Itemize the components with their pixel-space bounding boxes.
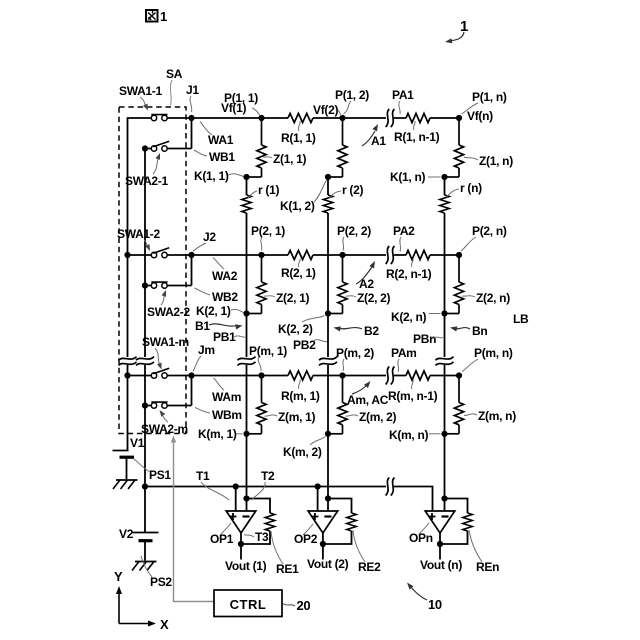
label WB2: [195, 288, 239, 304]
label K(2, 2): [278, 316, 325, 337]
wire ground rail: [145, 487, 433, 512]
node output of OPn: [437, 541, 443, 547]
wire jog to K(1,n): [445, 176, 460, 178]
break in column n sense line: [436, 357, 454, 366]
node output of OP2: [320, 541, 326, 547]
wire feedback loop of OP2: [323, 499, 352, 545]
label A2: [356, 261, 375, 291]
svg-text:Z(1, n): Z(1, n): [479, 154, 513, 168]
label P(1, 1): [224, 91, 258, 105]
svg-text:PB1: PB1: [213, 330, 236, 344]
label P(m, n): [462, 346, 513, 372]
node rail junction for OP2: [315, 483, 321, 489]
wire column 2 sense line: [327, 177, 329, 511]
svg-text:P(1, 2): P(1, 2): [335, 88, 369, 102]
wire jog to K(2,2): [328, 313, 343, 315]
wire jog to K(1,1): [247, 176, 262, 178]
node K(m,2): [325, 431, 331, 437]
svg-text:Z(m, 2): Z(m, 2): [359, 410, 397, 424]
svg-text:T2: T2: [261, 469, 275, 483]
label PA1: [392, 88, 414, 114]
svg-text:WB2: WB2: [212, 290, 238, 304]
label REn: [469, 530, 499, 574]
svg-text:P(2, n): P(2, n): [472, 224, 507, 238]
resistor Z(m,2): [338, 376, 347, 434]
wire WB1 stub to J1: [191, 118, 193, 149]
label V2: [119, 527, 134, 541]
node K(2,1): [243, 310, 249, 316]
label PBn: [413, 332, 443, 346]
node K(m,n): [441, 431, 447, 437]
svg-text:R(1, n-1): R(1, n-1): [394, 130, 440, 144]
label P(2, n): [461, 224, 507, 251]
svg-text:K(m, 1): K(m, 1): [198, 427, 237, 441]
label P(2, 2): [337, 224, 371, 251]
svg-text:PS1: PS1: [149, 468, 171, 482]
svg-text:20: 20: [297, 598, 311, 613]
label K(2, n): [391, 310, 441, 324]
wire + input stub of OP2: [317, 487, 319, 512]
wire output of OP1: [240, 533, 242, 560]
label P(2, 1): [251, 224, 285, 251]
svg-text:T1: T1: [196, 469, 210, 483]
label PB2: [293, 338, 327, 352]
wire row 1 (word line): [192, 117, 460, 119]
label R(2, n-1): [386, 259, 432, 282]
svg-text:Vf(1): Vf(1): [221, 101, 246, 115]
node rail-bus2 junction: [142, 483, 148, 489]
node K(2,n): [441, 310, 447, 316]
node bus1-rowm junction: [124, 372, 130, 378]
svg-text:R(2, n-1): R(2, n-1): [386, 267, 432, 281]
op-amp OP1: [226, 511, 256, 533]
label K(1, 1): [194, 169, 244, 183]
label R(2, 1): [281, 259, 316, 281]
resistor Z(2,1): [257, 255, 266, 314]
svg-text:WB1: WB1: [209, 150, 235, 164]
label V1: [130, 436, 145, 450]
node P(1,n): [456, 115, 462, 121]
svg-text:P(m, 2): P(m, 2): [336, 346, 374, 360]
switch SWA1-1 (closed): [151, 115, 191, 121]
svg-text:X: X: [160, 617, 169, 632]
wire feedback loop of OP1: [241, 499, 270, 545]
svg-text:R(1, 1): R(1, 1): [281, 131, 316, 145]
label A1: [362, 124, 386, 148]
figure title 図1: [146, 9, 167, 24]
wire jog to K(m,2): [328, 433, 343, 435]
ground for V2: [132, 562, 157, 571]
op-amp OPn: [425, 511, 455, 533]
label P(1, n): [462, 90, 507, 114]
svg-text:K(m, n): K(m, n): [389, 428, 429, 442]
ground for V1: [113, 480, 138, 489]
label T3: [244, 530, 269, 544]
label SWA1-m: [142, 335, 189, 370]
svg-text:Z(m, 1): Z(m, 1): [278, 410, 316, 424]
wire feedback loop of OPn: [440, 499, 468, 545]
label Vf(n): [467, 109, 493, 123]
svg-text:K(2, n): K(2, n): [391, 310, 427, 324]
svg-text:r (2): r (2): [342, 183, 363, 197]
label J2: [193, 230, 216, 252]
resistor Z(m,n): [454, 376, 463, 434]
reference numeral 1 with arrow: [445, 18, 468, 43]
svg-text:WAm: WAm: [212, 390, 241, 404]
label Z(1, n): [464, 154, 513, 168]
wire + input stub of OP1: [235, 487, 237, 512]
resistor R(1,1): [288, 113, 313, 123]
break in bus 1: [119, 357, 137, 366]
node P(2,2): [339, 252, 345, 258]
svg-text:P(2, 2): P(2, 2): [337, 224, 371, 238]
label WAm: [212, 378, 241, 404]
svg-text:Vout (n): Vout (n): [420, 558, 462, 572]
label B2: [334, 324, 380, 338]
node K(2,2): [325, 310, 331, 316]
label R(1, n-1): [394, 121, 440, 144]
svg-text:Z(2, 2): Z(2, 2): [357, 291, 391, 305]
svg-text:RE1: RE1: [276, 562, 299, 576]
label SWA1-2: [117, 227, 161, 251]
node P(m,n): [456, 372, 462, 378]
svg-text:Z(1, 1): Z(1, 1): [273, 152, 307, 166]
svg-text:PA1: PA1: [392, 88, 414, 102]
svg-text:OPn: OPn: [409, 531, 433, 545]
wire WB2 stub to J2: [191, 255, 193, 286]
node feedback junction of OP2: [325, 495, 331, 501]
node P(2,n): [456, 252, 462, 258]
label SWA2-2: [147, 290, 191, 319]
label T1: [196, 469, 229, 500]
label Z(2, 1): [264, 291, 310, 305]
svg-text:Bn: Bn: [472, 324, 487, 338]
svg-text:P(1, n): P(1, n): [472, 90, 507, 104]
label K(2, 1): [196, 304, 244, 318]
label K(m, 2): [283, 437, 326, 460]
node feedback junction of OP1: [243, 495, 249, 501]
label WA2: [212, 258, 238, 284]
resistor Z(2,n): [454, 255, 463, 314]
label RE2: [353, 530, 381, 574]
resistor R(2,1): [288, 250, 313, 260]
node P(1,2): [339, 115, 345, 121]
label SWA2-m: [141, 410, 188, 436]
svg-text:SWA2-m: SWA2-m: [141, 422, 188, 436]
battery V2 (PS2): [133, 487, 159, 561]
label PS2: [141, 556, 172, 589]
label SA: [166, 67, 183, 105]
label Z(2, 2): [346, 291, 391, 305]
svg-text:A1: A1: [371, 134, 386, 148]
label PS1: [134, 459, 171, 482]
svg-text:Z(2, n): Z(2, n): [476, 291, 510, 305]
control line from CTRL to SA: [171, 436, 214, 602]
svg-text:Am, AC: Am, AC: [347, 393, 389, 407]
resistor r(2): [322, 195, 334, 213]
svg-text:J1: J1: [186, 83, 199, 97]
resistor R(2,n-1): [406, 250, 430, 260]
svg-text:B1: B1: [195, 319, 210, 333]
break in column 2 sense line: [319, 357, 337, 366]
svg-text:SWA2-1: SWA2-1: [125, 174, 169, 188]
svg-text:Z(m, n): Z(m, n): [478, 409, 516, 423]
label Z(1, 1): [264, 152, 307, 166]
wire output of OPn: [439, 533, 441, 560]
wire jog to K(1,2): [328, 176, 343, 178]
label Z(m, n): [464, 409, 516, 423]
label K(1, 2): [280, 180, 327, 213]
svg-text:PA2: PA2: [393, 224, 415, 238]
label LB: [513, 312, 529, 326]
node K(1,1): [243, 174, 249, 180]
label K(1, n): [390, 170, 441, 184]
svg-text:PAm: PAm: [391, 346, 417, 360]
svg-text:K(m, 2): K(m, 2): [283, 445, 322, 459]
label SWA1-1: [119, 84, 163, 111]
node rail junction for OP1: [233, 483, 239, 489]
wire jog to K(2,1): [247, 313, 262, 315]
wire bus V1 (left vertical bus 1): [128, 118, 152, 450]
svg-text:PS2: PS2: [150, 575, 172, 589]
svg-text:R(m, 1): R(m, 1): [281, 389, 320, 403]
switch SWA2-m (closed): [142, 402, 192, 409]
resistor RE of OP2: [347, 513, 356, 531]
svg-text:B2: B2: [364, 324, 379, 338]
label SWA2-1: [125, 153, 169, 188]
svg-text:K(2, 2): K(2, 2): [278, 322, 313, 336]
svg-text:Jm: Jm: [198, 343, 215, 357]
wire row m (word line): [192, 375, 460, 377]
node feedback junction of OPn: [441, 495, 447, 501]
label Vout(n): [420, 558, 462, 572]
battery V1 (PS1): [113, 451, 135, 480]
svg-text:10: 10: [428, 597, 442, 612]
svg-text:K(1, 1): K(1, 1): [194, 169, 229, 183]
switch SWA1-m (open): [128, 368, 192, 378]
label PAm: [391, 346, 417, 372]
svg-text:R(2, 1): R(2, 1): [281, 266, 316, 280]
svg-text:SWA2-2: SWA2-2: [147, 305, 191, 319]
label Z(2, n): [462, 291, 510, 305]
label RE1: [271, 531, 299, 576]
svg-text:V2: V2: [119, 527, 134, 541]
reference numeral 10 with arrow: [407, 583, 442, 613]
resistor Z(2,2): [338, 255, 347, 314]
resistor Z(m,1): [257, 376, 266, 434]
label Vf(1): [221, 101, 260, 116]
label P(m, 2): [336, 346, 374, 371]
label OPn: [409, 523, 433, 545]
svg-text:SA: SA: [166, 67, 183, 81]
wire WBm stub to Jm: [191, 376, 193, 406]
wire bus GND (left vertical bus 2): [144, 149, 146, 487]
label PA2: [393, 224, 415, 252]
resistor RE of OP1: [265, 513, 274, 531]
wire output of OP2: [322, 533, 324, 560]
label Z(m, 1): [265, 410, 316, 424]
switch block SA dashed box: [119, 107, 186, 434]
label OP1: [210, 523, 234, 546]
label Bn: [450, 324, 487, 338]
svg-text:R(m, n-1): R(m, n-1): [388, 389, 438, 403]
label Z(m, 2): [346, 410, 397, 424]
svg-text:Vout (1): Vout (1): [225, 559, 267, 573]
svg-text:K(2, 1): K(2, 1): [196, 304, 231, 318]
label r(2): [330, 183, 364, 198]
label r(1): [248, 183, 279, 198]
svg-text:REn: REn: [476, 560, 499, 574]
block CTRL: [214, 590, 282, 617]
node P(2,1): [258, 252, 264, 258]
break in column 1 sense line: [238, 357, 256, 366]
svg-text:WBm: WBm: [212, 408, 242, 422]
node K(m,1): [243, 431, 249, 437]
label Am, AC: [347, 381, 389, 407]
svg-text:Y: Y: [114, 569, 123, 584]
svg-text:P(m, n): P(m, n): [474, 346, 513, 360]
node K(1,2): [325, 174, 331, 180]
node J1: [188, 115, 194, 121]
op-amp OP2: [308, 511, 338, 533]
wire column 1 sense line: [246, 177, 248, 511]
node J2: [188, 252, 194, 258]
resistor R(m,1): [288, 371, 313, 381]
svg-text:SWA1-2: SWA1-2: [117, 227, 161, 241]
break PAm in row m: [386, 367, 395, 385]
label WA1: [200, 122, 234, 148]
wire column n sense line: [444, 177, 446, 511]
resistor Z(1,n): [454, 118, 463, 177]
resistor R(1,n-1): [406, 113, 430, 123]
break in bus 2: [136, 357, 154, 366]
break in ground rail: [386, 478, 395, 496]
svg-text:K(1, n): K(1, n): [390, 170, 426, 184]
label R(m, 1): [281, 380, 320, 404]
switch SWA2-1 (open): [142, 141, 192, 151]
svg-text:K(1, 2): K(1, 2): [280, 199, 315, 213]
svg-text:OP1: OP1: [210, 532, 234, 546]
label Vout(1): [225, 559, 267, 573]
wire jog to K(2,n): [445, 313, 460, 315]
label K(m, n): [389, 428, 441, 442]
switch SWA1-2 (open): [128, 248, 192, 258]
label Vout(2): [307, 557, 349, 571]
label r(n): [447, 181, 483, 197]
svg-text:Vf(n): Vf(n): [467, 109, 493, 123]
svg-text:RE2: RE2: [358, 560, 381, 574]
label Jm: [193, 343, 215, 372]
svg-text:SWA1-m: SWA1-m: [142, 335, 189, 349]
svg-text:Vf(2): Vf(2): [313, 103, 338, 117]
label K(m, 1): [198, 427, 243, 441]
wire jog to K(m,1): [247, 433, 262, 435]
label P(m, 1): [249, 344, 287, 371]
svg-text:P(2, 1): P(2, 1): [251, 224, 285, 238]
svg-text:J2: J2: [203, 230, 216, 244]
resistor R(m,n-1): [406, 371, 430, 381]
label 20: [283, 598, 310, 613]
label T2: [252, 469, 276, 500]
svg-text:LB: LB: [513, 312, 529, 326]
svg-text:r (n): r (n): [460, 181, 482, 195]
wire jog to K(m,n): [445, 433, 460, 435]
node bus1-row2 junction: [124, 252, 130, 258]
resistor Z(1,2): [338, 118, 347, 177]
label R(1, 1): [281, 121, 316, 145]
label Vf(2): [313, 103, 342, 117]
svg-text:1: 1: [160, 9, 167, 24]
svg-text:V1: V1: [130, 436, 145, 450]
label P(1, 2): [335, 88, 369, 114]
svg-text:OP2: OP2: [294, 532, 318, 546]
label WB1: [194, 150, 235, 164]
svg-text:CTRL: CTRL: [230, 597, 267, 612]
node P(m,1): [258, 372, 264, 378]
node P(m,2): [339, 372, 345, 378]
svg-text:PB2: PB2: [293, 338, 316, 352]
node Jm: [188, 372, 194, 378]
svg-text:T3: T3: [255, 530, 269, 544]
axis Y arrow: [114, 569, 123, 624]
label PB1: [213, 330, 245, 344]
axis X arrow: [119, 617, 169, 632]
break PA2 in row 2: [386, 246, 395, 264]
resistor Z(1,1): [257, 118, 266, 177]
svg-text:A2: A2: [359, 277, 374, 291]
node K(1,n): [441, 174, 447, 180]
break PA1 in row 1: [386, 109, 395, 127]
label WBm: [195, 408, 242, 423]
label J1: [186, 83, 199, 112]
wire row 2 (word line): [192, 254, 460, 256]
label B1: [195, 319, 243, 333]
node P(1,1): [258, 115, 264, 121]
svg-text:Vout (2): Vout (2): [307, 557, 349, 571]
svg-text:WA2: WA2: [212, 269, 238, 283]
label R(m, n-1): [388, 380, 438, 404]
svg-text:r (1): r (1): [258, 183, 279, 197]
svg-text:SWA1-1: SWA1-1: [119, 84, 163, 98]
svg-text:P(m, 1): P(m, 1): [249, 344, 287, 358]
label OP2: [294, 524, 318, 546]
switch SWA2-2 (closed): [142, 282, 192, 289]
resistor r(n): [439, 195, 451, 213]
node output of OP1: [238, 541, 244, 547]
resistor RE of OPn: [463, 513, 472, 531]
resistor r(1): [241, 195, 253, 213]
svg-text:Z(2, 1): Z(2, 1): [276, 291, 310, 305]
